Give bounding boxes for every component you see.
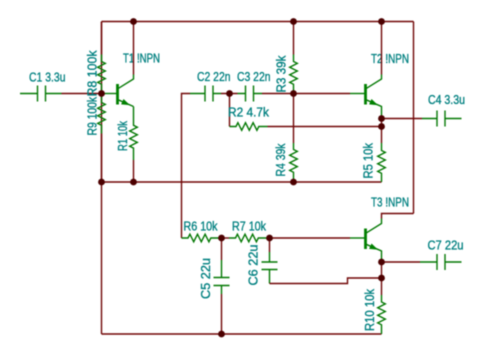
wire R7 to node E: [267, 237, 270, 239]
resistor R5: [361, 143, 386, 182]
resistor R4: [273, 143, 297, 182]
capacitor C1: [20, 70, 66, 102]
resistor R9: [85, 94, 106, 136]
wire bottom rail: [102, 333, 382, 335]
resistor R3: [274, 55, 298, 94]
svg-text:C2 22n: C2 22n: [197, 69, 231, 84]
capacitor C7: [382, 238, 464, 271]
wire node C to R4: [293, 94, 295, 144]
svg-text:T2 !NPN: T2 !NPN: [371, 51, 409, 66]
transistor T2: [294, 51, 410, 119]
resistor R10: [362, 289, 385, 334]
svg-text:R8 100k: R8 100k: [85, 50, 100, 96]
resistor R1: [115, 107, 137, 161]
wire T3 collector to right rail: [382, 214, 414, 219]
transistor T3: [270, 195, 410, 263]
wire R6 to node D: [220, 237, 230, 239]
svg-text:R9 100k: R9 100k: [85, 97, 100, 136]
svg-text:C1 3.3u: C1 3.3u: [29, 70, 66, 85]
wire R9 to mid rail: [101, 134, 103, 183]
resistor R7: [229, 219, 267, 242]
wire R2 node to R5: [381, 127, 383, 144]
resistor R6: [182, 219, 220, 242]
wire C1 to node A: [62, 93, 102, 95]
resistor R2: [228, 105, 269, 131]
wire top rail to T1 collector: [133, 22, 135, 75]
wire mid rail y=182: [102, 181, 382, 183]
wire T3 emitter node to R10: [381, 262, 383, 295]
svg-text:R5 10k: R5 10k: [361, 143, 376, 179]
wire left rail: [101, 22, 103, 335]
node junction dots: [130, 18, 137, 25]
svg-text:R3 39k: R3 39k: [274, 55, 289, 92]
svg-text:T3 !NPN: T3 !NPN: [371, 195, 409, 210]
wire top rail to R3: [293, 22, 295, 55]
wire top rail to T2 collector: [381, 22, 383, 75]
wire C5 to bottom rail: [221, 294, 223, 334]
wire C3 to node C: [262, 93, 294, 95]
transistor T1: [102, 51, 161, 107]
resistor R8: [85, 50, 106, 96]
wire R1 to mid rail: [133, 160, 135, 182]
wire top rail to R8: [101, 22, 103, 55]
wire top rail: [102, 21, 414, 23]
wire C2 to node B: [221, 93, 238, 95]
svg-text:C4 3.3u: C4 3.3u: [428, 92, 465, 107]
svg-text:T1 !NPN: T1 !NPN: [123, 51, 160, 66]
svg-text:R10 10k: R10 10k: [362, 289, 377, 331]
wire C6 to T3 emitter node: [270, 278, 382, 284]
wire node B to R2: [229, 94, 231, 127]
svg-text:R4 39k: R4 39k: [273, 143, 288, 176]
svg-text:C7 22u: C7 22u: [428, 238, 464, 253]
svg-text:R6 10k: R6 10k: [184, 219, 218, 234]
capacitor C5: [198, 238, 230, 299]
capacitor C3: [237, 69, 271, 102]
svg-text:C3 22n: C3 22n: [237, 69, 271, 84]
wire right rail: [413, 22, 415, 214]
capacitor C2: [190, 69, 231, 102]
svg-text:R2 4.7k: R2 4.7k: [228, 105, 269, 120]
capacitor C6: [246, 238, 278, 286]
svg-text:C6 22u: C6 22u: [246, 245, 261, 286]
capacitor C4: [382, 92, 466, 127]
svg-text:C5 22u: C5 22u: [198, 258, 213, 299]
wire T2 emitter node to R2 node: [381, 119, 383, 127]
wire R2 to T2 emitter node: [268, 126, 382, 128]
svg-text:R7 10k: R7 10k: [232, 219, 266, 234]
wire C2 input branch: [182, 94, 191, 239]
svg-text:R1 10k: R1 10k: [115, 121, 130, 151]
